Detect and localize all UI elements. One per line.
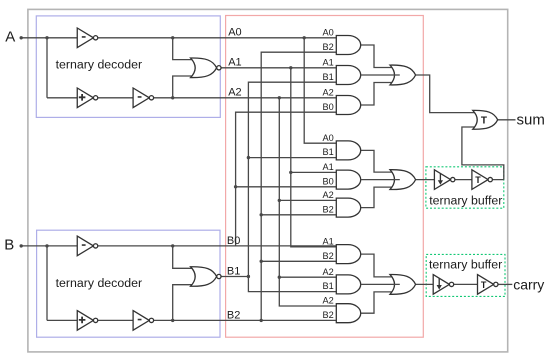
- svg-text:B1: B1: [323, 72, 334, 82]
- svg-text:A: A: [5, 29, 15, 46]
- svg-text:B0: B0: [323, 102, 334, 112]
- svg-text:A1: A1: [323, 237, 334, 247]
- svg-text:A0: A0: [323, 133, 334, 143]
- svg-text:carry: carry: [513, 276, 544, 292]
- svg-text:sum: sum: [517, 112, 545, 129]
- svg-text:A0: A0: [228, 27, 241, 39]
- svg-text:B0: B0: [323, 176, 334, 186]
- svg-text:A2: A2: [323, 87, 334, 97]
- svg-text:A1: A1: [228, 57, 241, 69]
- svg-text:A0: A0: [323, 27, 334, 37]
- svg-text:B2: B2: [323, 251, 334, 261]
- svg-text:B2: B2: [323, 310, 334, 320]
- svg-text:B2: B2: [227, 309, 240, 321]
- svg-text:T: T: [481, 115, 487, 126]
- svg-text:T: T: [481, 280, 487, 290]
- svg-text:A2: A2: [323, 267, 334, 277]
- svg-text:A2: A2: [323, 190, 334, 200]
- svg-text:B0: B0: [227, 235, 240, 247]
- svg-text:B2: B2: [323, 42, 334, 52]
- svg-text:B: B: [4, 237, 14, 254]
- svg-text:ternary buffer: ternary buffer: [429, 193, 502, 207]
- svg-text:ternary decoder: ternary decoder: [56, 58, 142, 72]
- svg-text:B2: B2: [323, 204, 334, 214]
- svg-text:B1: B1: [227, 265, 240, 277]
- svg-text:ternary decoder: ternary decoder: [56, 276, 142, 290]
- svg-text:A2: A2: [323, 296, 334, 306]
- svg-text:A2: A2: [228, 87, 241, 99]
- svg-text:B1: B1: [323, 281, 334, 291]
- svg-text:A1: A1: [323, 57, 334, 67]
- svg-text:ternary buffer: ternary buffer: [429, 257, 502, 271]
- svg-text:A1: A1: [323, 162, 334, 172]
- svg-text:B1: B1: [323, 147, 334, 157]
- svg-text:T: T: [475, 175, 481, 185]
